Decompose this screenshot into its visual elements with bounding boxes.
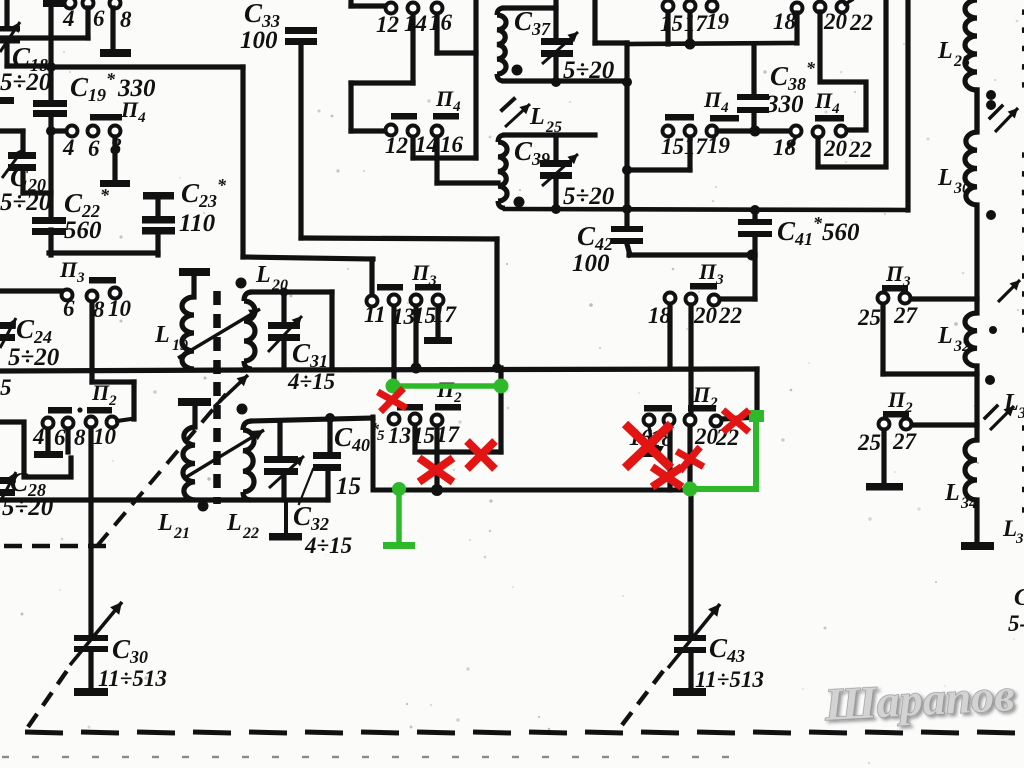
svg-text:L: L xyxy=(1003,390,1019,416)
svg-text:5÷20: 5÷20 xyxy=(563,57,615,84)
svg-text:5-: 5- xyxy=(1008,611,1024,636)
svg-text:5÷20: 5÷20 xyxy=(0,189,52,216)
svg-text:100: 100 xyxy=(572,250,610,277)
svg-text:22: 22 xyxy=(849,10,873,35)
svg-text:12: 12 xyxy=(376,12,399,37)
svg-text:5÷20: 5÷20 xyxy=(0,69,52,96)
svg-text:19: 19 xyxy=(707,133,731,158)
svg-text:11÷513: 11÷513 xyxy=(695,667,764,692)
svg-text:L: L xyxy=(255,262,271,288)
svg-text:L: L xyxy=(937,323,953,349)
svg-text:13: 13 xyxy=(388,423,411,448)
svg-text:330: 330 xyxy=(765,91,804,118)
svg-text:4: 4 xyxy=(62,6,75,31)
svg-text:6: 6 xyxy=(88,136,100,161)
svg-text:560: 560 xyxy=(822,219,860,246)
svg-text:3: 3 xyxy=(1017,405,1024,422)
svg-text:20: 20 xyxy=(823,9,848,34)
svg-text:100: 100 xyxy=(240,27,278,54)
svg-text:22: 22 xyxy=(242,525,259,542)
svg-text:L: L xyxy=(937,38,953,64)
svg-text:L: L xyxy=(937,165,953,191)
svg-text:4: 4 xyxy=(32,424,45,449)
svg-text:8: 8 xyxy=(93,297,105,322)
svg-text:25: 25 xyxy=(857,305,881,330)
svg-text:27: 27 xyxy=(893,303,919,328)
svg-text:L: L xyxy=(157,510,173,536)
svg-text:11÷513: 11÷513 xyxy=(98,666,167,691)
svg-text:6: 6 xyxy=(93,6,105,31)
svg-text:5÷20: 5÷20 xyxy=(8,344,60,371)
svg-text:15: 15 xyxy=(661,134,684,159)
svg-text:21: 21 xyxy=(173,525,190,542)
svg-text:10: 10 xyxy=(93,424,117,449)
svg-text:16: 16 xyxy=(440,132,464,157)
svg-text:5÷20: 5÷20 xyxy=(563,183,615,210)
svg-text:4÷15: 4÷15 xyxy=(304,533,352,558)
svg-text:5: 5 xyxy=(0,375,12,400)
svg-text:L: L xyxy=(154,322,170,348)
svg-text:4÷15: 4÷15 xyxy=(287,369,335,394)
svg-text:30: 30 xyxy=(953,180,970,197)
svg-text:22: 22 xyxy=(718,303,742,328)
svg-text:19: 19 xyxy=(706,9,730,34)
svg-text:32: 32 xyxy=(953,338,970,355)
svg-text:6: 6 xyxy=(54,425,66,450)
svg-text:34: 34 xyxy=(960,495,977,512)
svg-text:8: 8 xyxy=(120,7,132,32)
svg-text:12: 12 xyxy=(385,133,408,158)
svg-text:L: L xyxy=(1002,516,1017,541)
svg-text:330: 330 xyxy=(117,75,156,102)
svg-text:22: 22 xyxy=(848,137,872,162)
svg-text:15: 15 xyxy=(660,11,683,36)
svg-text:L: L xyxy=(226,510,242,536)
svg-text:20: 20 xyxy=(823,136,848,161)
svg-text:10: 10 xyxy=(108,296,132,321)
svg-text:11: 11 xyxy=(364,302,386,327)
svg-text:17: 17 xyxy=(436,422,461,447)
svg-text:110: 110 xyxy=(179,210,216,237)
svg-text:20: 20 xyxy=(693,303,718,328)
svg-text:27: 27 xyxy=(892,429,918,454)
svg-text:19: 19 xyxy=(172,337,188,354)
svg-text:5: 5 xyxy=(377,428,385,444)
svg-text:6: 6 xyxy=(63,296,75,321)
svg-text:3: 3 xyxy=(1015,531,1024,547)
svg-text:8: 8 xyxy=(74,425,86,450)
svg-text:L: L xyxy=(944,480,960,506)
svg-text:16: 16 xyxy=(429,10,453,35)
svg-text:560: 560 xyxy=(64,217,102,244)
svg-text:C: C xyxy=(1014,585,1024,611)
svg-text:18: 18 xyxy=(773,9,797,34)
svg-text:28: 28 xyxy=(953,53,970,70)
svg-text:4: 4 xyxy=(62,135,75,160)
svg-text:L: L xyxy=(529,104,545,130)
svg-text:Шарапов: Шарапов xyxy=(823,669,1016,730)
svg-text:25: 25 xyxy=(857,430,881,455)
svg-text:15: 15 xyxy=(336,473,361,500)
